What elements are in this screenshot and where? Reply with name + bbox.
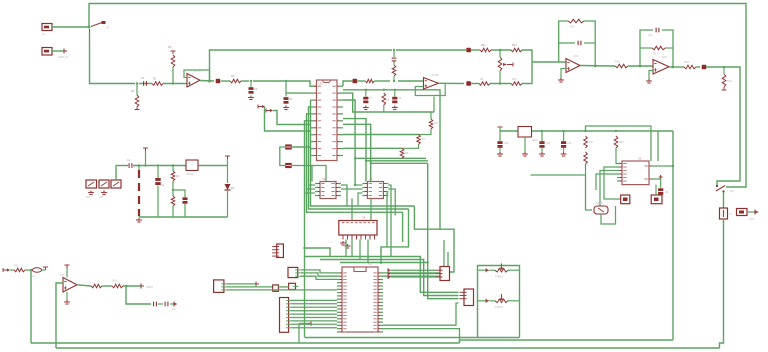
IC U4 <box>339 221 377 236</box>
junction U2 l3 <box>305 192 307 194</box>
junction C4 rail <box>285 80 287 82</box>
junction U2 l1 <box>309 184 311 186</box>
junction fb4 out <box>672 66 675 69</box>
svg-text:R19: R19 <box>727 79 732 83</box>
wire tp3 down <box>298 323 300 343</box>
junction cap C7 <box>365 89 367 91</box>
wire bundle jog to band <box>305 248 331 257</box>
junction U3 l1 <box>354 184 356 186</box>
svg-text:U2: U2 <box>322 177 326 181</box>
wire mcu r1 <box>383 240 444 273</box>
fuse F1 inner <box>723 210 725 217</box>
wire sv1 w3 <box>291 306 337 308</box>
wire U1 pin2 left <box>286 92 311 94</box>
wire U3 r2 <box>388 189 395 216</box>
wire vcc pin leg <box>145 150 147 166</box>
wire opamp4 vcc <box>66 267 68 278</box>
resistor R23 <box>91 284 102 288</box>
resistor R15 <box>568 19 584 23</box>
resistor R9 <box>479 82 490 86</box>
op-amp IC6 <box>653 60 669 75</box>
wire R5 bottom <box>383 105 385 112</box>
wire j2 w2 <box>226 286 272 288</box>
wire R6-R7 <box>419 129 432 135</box>
wire rail seg3 <box>163 83 188 85</box>
pin PA3 <box>387 275 389 279</box>
svg-text:R18: R18 <box>684 60 689 64</box>
junction R3 tap <box>172 82 174 84</box>
wire bottom rail B <box>56 347 720 349</box>
svg-text:R1: R1 <box>153 77 157 81</box>
pin OUT2 <box>173 302 175 307</box>
svg-text:U3: U3 <box>369 177 373 181</box>
wire fb3 left leg <box>559 21 568 62</box>
wire u6 r1 <box>654 165 673 167</box>
wire R7-R8 <box>402 145 419 149</box>
ground C22 <box>561 152 567 156</box>
wire U2pin3 <box>307 192 316 194</box>
svg-text:C8: C8 <box>398 97 402 100</box>
wire rail over to opamp2 <box>398 80 424 82</box>
svg-text:R10: R10 <box>512 78 517 81</box>
junction T r29 <box>615 130 617 132</box>
connector SV4 <box>289 283 296 289</box>
wire bottom rail A <box>31 342 460 344</box>
LED D1 <box>225 184 231 190</box>
capacitor C23 <box>658 188 663 191</box>
wire out chain a <box>471 83 479 85</box>
wire c20 gnd <box>499 148 501 152</box>
capacitor C24 smd <box>353 79 358 84</box>
ground U4a <box>340 241 346 245</box>
wire R19 leg <box>723 67 725 74</box>
wire r29 down <box>616 148 617 164</box>
wire band3 <box>340 263 459 299</box>
supply pin VIN <box>497 127 502 130</box>
resistor R20 <box>171 171 175 181</box>
wire U2 r1 <box>341 185 347 206</box>
svg-text:U4: U4 <box>362 216 366 220</box>
resistor R21 <box>171 196 175 206</box>
svg-text:R8: R8 <box>405 151 409 155</box>
capacitor C4 <box>284 97 289 100</box>
capacitor C9 smd <box>466 81 471 86</box>
wire led leg <box>227 166 229 184</box>
wire pin7R <box>343 134 419 136</box>
wire bat top <box>138 166 140 171</box>
svg-text:R17: R17 <box>653 52 658 56</box>
junction pwr a <box>138 164 141 167</box>
wire sv1 w5 <box>291 313 337 315</box>
junction fb3 out <box>594 65 597 68</box>
svg-text:AC: AC <box>172 307 176 311</box>
capacitor C17 <box>183 197 188 200</box>
ground opamp3 <box>646 79 652 83</box>
wire fb1 loop <box>184 70 210 81</box>
jumper JP1 <box>86 180 97 188</box>
wire R21 bot <box>172 206 174 217</box>
wire C17 bot <box>184 204 186 217</box>
wire led bot <box>227 190 229 217</box>
jumper JP2 <box>99 180 109 188</box>
junction band3 <box>427 261 429 263</box>
svg-text:S2: S2 <box>730 189 734 193</box>
wire TP1 route <box>273 111 311 125</box>
junction stack top <box>393 49 395 51</box>
IC U1 <box>317 80 338 161</box>
svg-text:TRIM2: TRIM2 <box>495 305 503 309</box>
IC U5 MCU <box>342 267 378 332</box>
capacitor C14 smd <box>702 65 707 70</box>
wire pin6R drop <box>370 163 372 181</box>
wire in1 down <box>30 270 32 343</box>
wire node to opamp2 in <box>532 61 566 63</box>
wire pin2R step <box>343 93 434 112</box>
fuse F1 <box>720 208 728 219</box>
capacitor C11 <box>392 58 397 61</box>
pin IN1 <box>3 268 7 272</box>
svg-text:TRIM1: TRIM1 <box>495 275 503 279</box>
resistor R2 <box>135 95 139 107</box>
svg-text:C20: C20 <box>504 142 509 145</box>
wire j2 w1 <box>226 283 256 285</box>
wire C7 stub <box>365 90 367 97</box>
svg-text:R15: R15 <box>570 25 575 29</box>
capacitor C16 <box>155 178 160 181</box>
svg-text:IC5: IC5 <box>574 54 579 58</box>
ground C20 <box>497 152 503 156</box>
wire xtal U <box>601 206 616 224</box>
op-amp IC7B <box>424 78 439 90</box>
wire bat bot <box>138 216 140 217</box>
svg-text:R7: R7 <box>422 137 426 141</box>
wire in1 b <box>25 269 31 271</box>
junction pwr c <box>172 164 174 166</box>
wire mcu r3 <box>383 303 459 325</box>
switch S1 <box>91 23 102 27</box>
svg-text:IC2: IC2 <box>368 263 373 266</box>
pin P1 <box>64 49 67 54</box>
wire pin6R continue down <box>427 163 429 262</box>
wire pot2 out <box>508 300 520 302</box>
wire fb4 mid left <box>640 47 652 49</box>
wire rail to IC1 <box>253 81 317 86</box>
svg-text:C22: C22 <box>567 142 572 145</box>
resistor R28 <box>584 152 588 164</box>
capacitor C15 <box>129 163 132 168</box>
wire ladder R6 top <box>430 112 432 119</box>
svg-text:X1: X1 <box>42 33 46 36</box>
svg-text:U6: U6 <box>638 157 642 161</box>
inductor L1 <box>32 268 41 272</box>
wire stack mid <box>393 62 395 66</box>
wire y50 rail to node <box>522 50 532 64</box>
resistor R6 <box>429 119 433 129</box>
jumper JP3 <box>111 180 121 188</box>
ground JP1 <box>88 191 94 195</box>
capacitor C7 <box>363 97 368 100</box>
wire pin1R line <box>343 90 440 229</box>
wire bus L1 <box>311 100 415 206</box>
ground JP2 <box>101 191 107 195</box>
switch S2 <box>716 186 725 192</box>
op-amp IC5 <box>566 59 580 73</box>
wire r28 down <box>585 164 587 175</box>
wire pwr rail2 <box>133 165 186 167</box>
node switch S1 common <box>88 26 91 29</box>
ground C21 <box>539 152 545 156</box>
svg-text:R27: R27 <box>589 141 594 144</box>
wire U3 r3 <box>387 193 388 247</box>
wire rail mid <box>357 80 365 82</box>
capacitor C1 <box>144 81 147 86</box>
wire mcu r2 <box>383 252 448 276</box>
wire pin5R step <box>343 119 428 161</box>
wire rail T2 <box>531 130 586 132</box>
wire border top and right side <box>89 4 746 188</box>
svg-text:R31: R31 <box>14 265 19 268</box>
svg-text:R11: R11 <box>481 43 486 47</box>
trimmer R14 <box>498 57 502 71</box>
connector X4 <box>440 267 450 281</box>
connector X1 <box>42 24 52 31</box>
wire sv1 w8 <box>291 323 337 325</box>
jumper JP3 inner <box>113 182 119 186</box>
supply pin VREF <box>43 267 48 270</box>
wire X1 to switch <box>52 26 89 28</box>
resistor R1 <box>152 82 163 86</box>
wire out chain c <box>522 64 532 84</box>
svg-text:C21: C21 <box>546 142 551 145</box>
pin R2 end <box>135 109 140 111</box>
wire band2 <box>320 260 459 296</box>
junction pwr d <box>172 189 174 191</box>
wire X3 pin <box>747 211 755 213</box>
wire c22 leg <box>563 131 565 141</box>
junction pin6R <box>370 162 372 164</box>
wire bus L4 <box>305 121 311 338</box>
svg-text:IC7B: IC7B <box>432 73 439 77</box>
wire U3 l3 <box>358 193 362 206</box>
pin POT1 <box>485 268 487 272</box>
wire U1 pin cap loop A <box>291 146 311 148</box>
wire bottom rail D <box>460 339 674 341</box>
ground PWR <box>136 218 142 222</box>
svg-text:R3: R3 <box>168 45 172 49</box>
wire TP2 route <box>265 107 311 132</box>
resistor R10 <box>511 82 522 86</box>
supply pin VCC2 <box>143 148 148 151</box>
connector X1 pin <box>44 26 49 29</box>
svg-text:IC6: IC6 <box>662 55 667 59</box>
svg-text:R29: R29 <box>619 141 624 144</box>
junction cap C8 <box>394 89 396 91</box>
ground C8 <box>392 106 398 110</box>
wire j2 w3 <box>226 289 337 291</box>
wire y50 rail right2 <box>471 49 480 51</box>
wire out to corner <box>706 67 740 185</box>
wire fb3 mid right <box>584 42 595 44</box>
op-amp IC4 <box>63 278 77 293</box>
wire sv1 w1 <box>291 299 337 301</box>
supply pin VCC4 <box>64 265 69 268</box>
wire rail mid2 <box>374 80 390 82</box>
IC REG1 <box>186 160 198 171</box>
svg-text:L1: L1 <box>32 275 35 278</box>
junction T c21 <box>541 130 543 132</box>
svg-text:JP1: JP1 <box>86 196 91 199</box>
wire tap to C17 <box>173 190 185 197</box>
resistor R5 <box>382 93 386 105</box>
wire vert 658 <box>657 131 659 161</box>
wire pwr gnd rail <box>139 216 228 218</box>
wire fb3 mid left <box>559 42 575 44</box>
wire cap loop right <box>291 166 312 182</box>
pin stub below S1 <box>89 29 91 33</box>
junction pwr b <box>157 164 159 166</box>
junction opamp1 out <box>208 80 211 83</box>
wire U4 d3 <box>367 240 369 263</box>
pin X3 <box>754 210 756 215</box>
wire S2 to fuse <box>723 192 725 208</box>
connector X2 pin <box>44 50 49 53</box>
capacitor C8 <box>392 97 397 100</box>
wire C16 bot <box>157 186 159 218</box>
wire sv1 w4 <box>291 310 337 312</box>
device Y2 <box>621 195 630 204</box>
wire U4 up2 <box>370 199 372 221</box>
junction pot top <box>499 49 501 51</box>
battery B1 <box>138 170 140 216</box>
wire U3 l1 <box>355 184 362 186</box>
wire pot1 in <box>478 269 487 271</box>
svg-text:R5: R5 <box>386 99 390 102</box>
resistor R17 <box>652 46 665 50</box>
junction R19 tap <box>723 66 725 68</box>
trimmer R26 <box>495 299 508 303</box>
connector SV1 <box>280 298 289 333</box>
wire vin drop <box>499 127 501 141</box>
svg-text:C13: C13 <box>648 34 653 37</box>
svg-text:GND_IN: GND_IN <box>58 55 68 59</box>
wire in1 a <box>10 269 14 271</box>
wire vertical 673 down <box>672 131 674 340</box>
wire aux cap <box>654 179 661 188</box>
wire opamp2 out <box>580 65 615 68</box>
wire out tail <box>123 285 141 287</box>
wire rail to R4 <box>221 80 230 82</box>
wire band1 <box>305 257 459 293</box>
capacitor C20 <box>497 141 502 144</box>
junction pin3R <box>354 157 356 159</box>
resistor R18 <box>684 65 696 69</box>
capacitor C18 <box>154 302 157 307</box>
connector X3 <box>737 209 748 216</box>
wire boxA w3 <box>391 276 436 278</box>
svg-text:C1: C1 <box>141 76 145 80</box>
svg-text:R12: R12 <box>512 43 517 47</box>
junction pot bottom <box>499 82 501 84</box>
wire fuse down to bottom <box>720 219 724 348</box>
wire loop above rail <box>586 126 652 161</box>
junction vcc riser <box>144 164 146 166</box>
svg-text:C2: C2 <box>161 184 165 187</box>
wire opamp4 out <box>77 285 91 286</box>
wire switch down to input rail <box>90 33 136 84</box>
wire pin5R drop <box>365 161 367 182</box>
capacitor C3 <box>249 87 254 90</box>
wire cc mid <box>158 303 163 305</box>
svg-text:R2: R2 <box>176 175 180 178</box>
wire R20 leg <box>172 166 174 172</box>
trimmer R26 arrow <box>500 297 504 301</box>
svg-text:U1: U1 <box>319 82 323 86</box>
wire R20-R21 <box>172 181 174 196</box>
capacitor C21 <box>539 141 544 144</box>
wire fb3 top right <box>584 21 595 66</box>
trimmer R25 <box>495 268 508 272</box>
ground opamp2 <box>558 78 564 82</box>
wire y3 up <box>655 185 657 195</box>
wire opamp2 plus stub <box>561 69 566 79</box>
wire U4 up1 <box>351 199 353 221</box>
resistor R30 <box>365 79 374 83</box>
wire boxA w2 <box>391 273 436 275</box>
junction R5 top <box>383 89 385 91</box>
device Y3 inner <box>654 198 659 202</box>
svg-text:R2: R2 <box>131 89 135 93</box>
wire rail T3 <box>586 130 674 132</box>
jumper JP1 inner <box>88 182 94 186</box>
wire boxA w1 <box>391 269 436 271</box>
junction stack bot <box>393 80 395 82</box>
svg-text:C4: C4 <box>289 97 293 101</box>
wire xtal net <box>531 174 586 176</box>
wire cap C4 up to rail <box>285 81 287 97</box>
capacitor C6 <box>285 163 292 165</box>
IC REG2 <box>518 127 532 138</box>
wire X2 stub <box>52 50 64 52</box>
wire y50 rail right <box>396 49 466 51</box>
svg-text:D1: D1 <box>231 186 235 190</box>
wire fb2a leg <box>433 97 435 113</box>
wire mcu r4 <box>383 329 460 343</box>
pin PA2 <box>387 272 389 276</box>
wire sv3 w3 <box>301 276 337 279</box>
wire led branch top <box>227 158 229 166</box>
wire pot frame left <box>477 270 479 337</box>
pin R19 end <box>722 89 727 91</box>
pin PA1 <box>387 268 389 272</box>
wire out node up to y50 rail <box>210 50 393 81</box>
IC U1 notch <box>322 80 331 83</box>
wire U4 d1 <box>351 240 353 257</box>
svg-text:R24: R24 <box>112 279 117 283</box>
resistor R13 <box>392 65 396 76</box>
junction out tap <box>125 285 127 287</box>
wire y50 rail right3 <box>491 49 511 51</box>
capacitor C5 <box>285 144 292 146</box>
wire stack top <box>393 50 395 57</box>
capacitor C10 smd <box>466 48 471 53</box>
wire pin3R drop <box>354 158 356 185</box>
resistor R3 <box>171 55 175 67</box>
connector X3 inner <box>739 211 744 214</box>
junction 673 r1 <box>672 165 674 167</box>
resistor R22 <box>14 268 25 272</box>
resistor R7 <box>417 135 421 145</box>
wire rail seg2 <box>139 83 152 85</box>
